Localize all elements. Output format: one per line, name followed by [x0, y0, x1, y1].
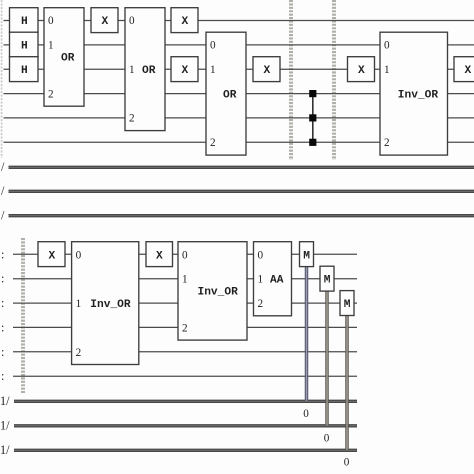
svg-text:0: 0: [324, 432, 330, 444]
classical wire c0 bottom row: [0, 394, 357, 408]
svg-text:H: H: [21, 65, 28, 77]
gate X q0 bottom col1: [38, 242, 65, 267]
wire q2 bottom row: [1, 296, 357, 310]
svg-text:1: 1: [182, 274, 188, 286]
svg-text::: :: [1, 296, 4, 310]
svg-text:0: 0: [303, 408, 309, 420]
svg-text:0: 0: [182, 249, 188, 261]
svg-text::: :: [1, 345, 4, 359]
wire q3 bottom row: [1, 320, 357, 334]
svg-text:Inv_OR: Inv_OR: [90, 299, 131, 311]
gate Inv_OR bottom2 (q0,q1,q3): [178, 242, 247, 340]
wire q5 top row: [4, 141, 474, 143]
svg-text:1/: 1/: [0, 443, 10, 457]
gate X q0 col2: [91, 8, 118, 33]
gate OR3 (q1,q2,q5): [206, 32, 246, 155]
barrier bottom fold: [21, 238, 23, 393]
square q3: [309, 90, 316, 97]
svg-text:X: X: [182, 65, 189, 77]
measure drop line M3->c2: [344, 315, 350, 468]
measure M2 q1: [320, 266, 334, 291]
svg-text:0: 0: [76, 249, 82, 261]
svg-text:0: 0: [210, 40, 216, 52]
svg-text:1/: 1/: [0, 394, 10, 408]
svg-text:1: 1: [384, 64, 390, 76]
svg-text::: :: [1, 369, 4, 383]
svg-text::: :: [1, 320, 4, 334]
svg-text:1: 1: [76, 298, 82, 310]
svg-text:H: H: [21, 41, 28, 53]
svg-text::: :: [1, 247, 4, 261]
svg-text:X: X: [102, 16, 109, 28]
classical wire c1 bottom row: [0, 419, 357, 433]
svg-text:OR: OR: [223, 89, 237, 101]
svg-text:M: M: [344, 299, 351, 311]
wire q0 bottom row: [1, 247, 357, 261]
svg-text:1: 1: [210, 64, 216, 76]
svg-text:X: X: [264, 65, 271, 77]
gate X q0 bottom col2: [146, 242, 173, 267]
square q5: [309, 139, 316, 146]
classical wire c0 top row: [1, 160, 474, 174]
svg-text:0: 0: [48, 15, 54, 27]
svg-text:X: X: [182, 16, 189, 28]
gate X q0 col3: [171, 8, 198, 33]
wire q3 top row: [4, 93, 474, 95]
svg-text:M: M: [303, 250, 310, 262]
wire q1 top row: [4, 44, 474, 46]
svg-text::: :: [1, 272, 4, 286]
svg-text:Inv_OR: Inv_OR: [198, 287, 239, 299]
svg-text:Inv_OR: Inv_OR: [398, 89, 439, 101]
svg-text:2: 2: [258, 298, 264, 310]
barrier B1: [289, 0, 291, 160]
svg-text:X: X: [49, 250, 56, 262]
svg-text:1: 1: [129, 64, 135, 76]
gate X q2 col5: [348, 57, 375, 82]
gate X q2 col4: [253, 57, 280, 82]
classical wire c2 bottom row: [0, 443, 357, 457]
wire q4 bottom row: [1, 345, 357, 359]
svg-text:H: H: [21, 16, 28, 28]
measure drop line M1->c0: [303, 267, 309, 420]
svg-text:OR: OR: [142, 65, 156, 77]
wire q1 bottom row: [1, 272, 357, 286]
svg-text:X: X: [465, 65, 472, 77]
svg-text:X: X: [358, 65, 365, 77]
svg-text:2: 2: [129, 113, 135, 125]
svg-text:2: 2: [210, 137, 216, 149]
wire q4 top row: [4, 117, 474, 119]
barrier B2: [332, 0, 334, 160]
gate OR2 (q0,q2,q4): [125, 8, 165, 131]
svg-text:2: 2: [384, 137, 390, 149]
svg-text:AA: AA: [270, 275, 284, 287]
svg-text:2: 2: [76, 347, 82, 359]
svg-text:2: 2: [48, 88, 54, 100]
wire q0 top row: [4, 20, 474, 22]
svg-text:0: 0: [384, 40, 390, 52]
classical wire c2 top row: [1, 208, 474, 222]
gate Inv_OR top (q1,q2,q5): [380, 32, 448, 155]
multi-square gate link (q3,q4,q5): [312, 94, 314, 143]
gate H q0: [10, 8, 39, 33]
barrier left (cropped): [1, 0, 3, 158]
measure drop line M2->c1: [324, 291, 330, 444]
svg-text:0: 0: [258, 249, 264, 261]
gate H q1: [10, 32, 39, 57]
gate H q2: [10, 57, 39, 82]
svg-text:0: 0: [129, 15, 135, 27]
svg-text:0: 0: [344, 457, 350, 469]
wire q5 bottom row: [1, 369, 357, 383]
gate OR1 (q0,q1,q3): [44, 8, 84, 107]
gate X q2 col6 (cropped right): [454, 57, 474, 82]
square q4: [309, 114, 316, 121]
svg-text:OR: OR: [61, 53, 75, 65]
svg-text:M: M: [324, 275, 331, 287]
svg-text:1: 1: [48, 40, 54, 52]
svg-text:X: X: [156, 250, 163, 262]
svg-text:1/: 1/: [0, 419, 10, 433]
wire q2 top row: [4, 68, 474, 70]
classical wire c1 top row: [1, 184, 474, 198]
gate Inv_OR bottom1 (q0,q2,q4): [72, 242, 139, 365]
svg-text:1: 1: [258, 274, 264, 286]
gate AA (q0,q1,q2): [254, 242, 292, 316]
gate X q2 col3: [171, 57, 198, 82]
measure M1 q0: [300, 242, 314, 267]
measure M3 q2: [340, 291, 354, 316]
svg-text:2: 2: [182, 322, 188, 334]
